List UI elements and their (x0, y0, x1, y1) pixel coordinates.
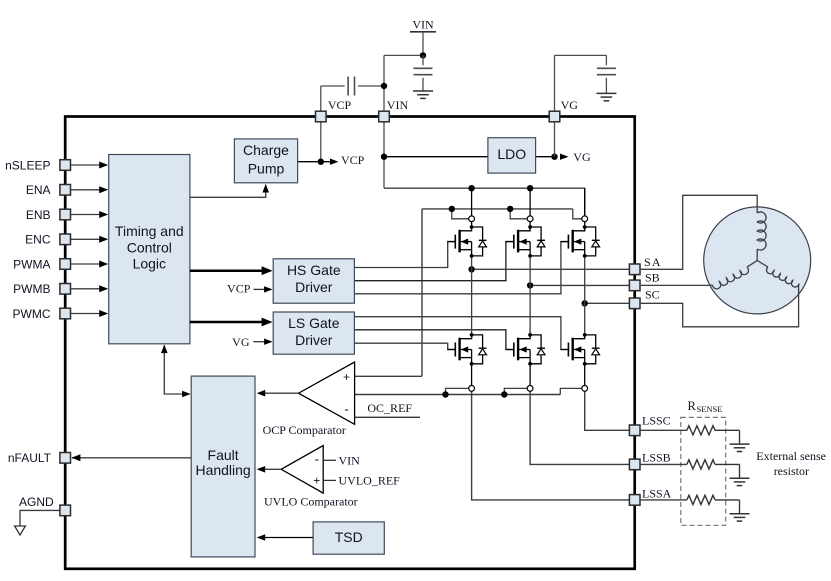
svg-text:VCP: VCP (227, 282, 251, 296)
svg-text:+: + (313, 473, 320, 487)
svg-text:Handling: Handling (195, 462, 250, 478)
svg-text:ENA: ENA (26, 183, 51, 197)
svg-text:OC_REF: OC_REF (367, 401, 412, 415)
svg-text:R: R (688, 399, 697, 413)
svg-text:Driver: Driver (295, 279, 333, 295)
svg-text:PWMC: PWMC (13, 307, 51, 321)
svg-text:Driver: Driver (295, 332, 333, 348)
svg-text:LSSB: LSSB (642, 451, 671, 465)
svg-text:AGND: AGND (19, 495, 54, 509)
svg-text:VG: VG (561, 98, 579, 112)
svg-text:External sense: External sense (756, 449, 826, 463)
svg-text:SC: SC (645, 288, 660, 302)
svg-text:SENSE: SENSE (697, 404, 723, 414)
svg-text:Control: Control (127, 239, 172, 255)
svg-text:Logic: Logic (133, 256, 166, 272)
svg-text:UVLO Comparator: UVLO Comparator (264, 495, 358, 509)
svg-text:VG: VG (573, 150, 591, 164)
svg-text:VCP: VCP (341, 153, 365, 167)
svg-text:HS Gate: HS Gate (287, 262, 341, 278)
svg-text:UVLO_REF: UVLO_REF (339, 473, 401, 487)
svg-text:ENB: ENB (26, 208, 51, 222)
svg-text:LSSC: LSSC (642, 414, 671, 428)
svg-text:Pump: Pump (248, 160, 285, 176)
svg-text:TSD: TSD (335, 529, 363, 545)
svg-text:VIN: VIN (339, 453, 361, 467)
svg-text:nSLEEP: nSLEEP (5, 158, 50, 172)
svg-text:VIN: VIN (412, 18, 434, 32)
svg-text:PWMA: PWMA (13, 257, 50, 271)
svg-text:LSSA: LSSA (642, 487, 672, 501)
svg-text:nFAULT: nFAULT (8, 451, 52, 465)
svg-text:LS Gate: LS Gate (288, 315, 340, 331)
svg-text:ENC: ENC (25, 233, 51, 247)
svg-text:-: - (315, 452, 319, 467)
svg-text:OCP Comparator: OCP Comparator (263, 423, 346, 437)
svg-text:+: + (343, 370, 350, 384)
svg-text:-: - (344, 402, 348, 417)
svg-text:Timing and: Timing and (115, 223, 184, 239)
svg-text:VG: VG (232, 335, 250, 349)
svg-text:LDO: LDO (497, 146, 526, 162)
svg-text:SB: SB (645, 270, 660, 284)
svg-text:SA: SA (644, 255, 662, 269)
svg-text:Fault: Fault (208, 447, 239, 463)
svg-text:resistor: resistor (774, 464, 809, 478)
svg-text:VCP: VCP (328, 98, 352, 112)
svg-text:PWMB: PWMB (13, 282, 50, 296)
svg-text:VIN: VIN (387, 98, 409, 112)
svg-text:Charge: Charge (243, 142, 289, 158)
